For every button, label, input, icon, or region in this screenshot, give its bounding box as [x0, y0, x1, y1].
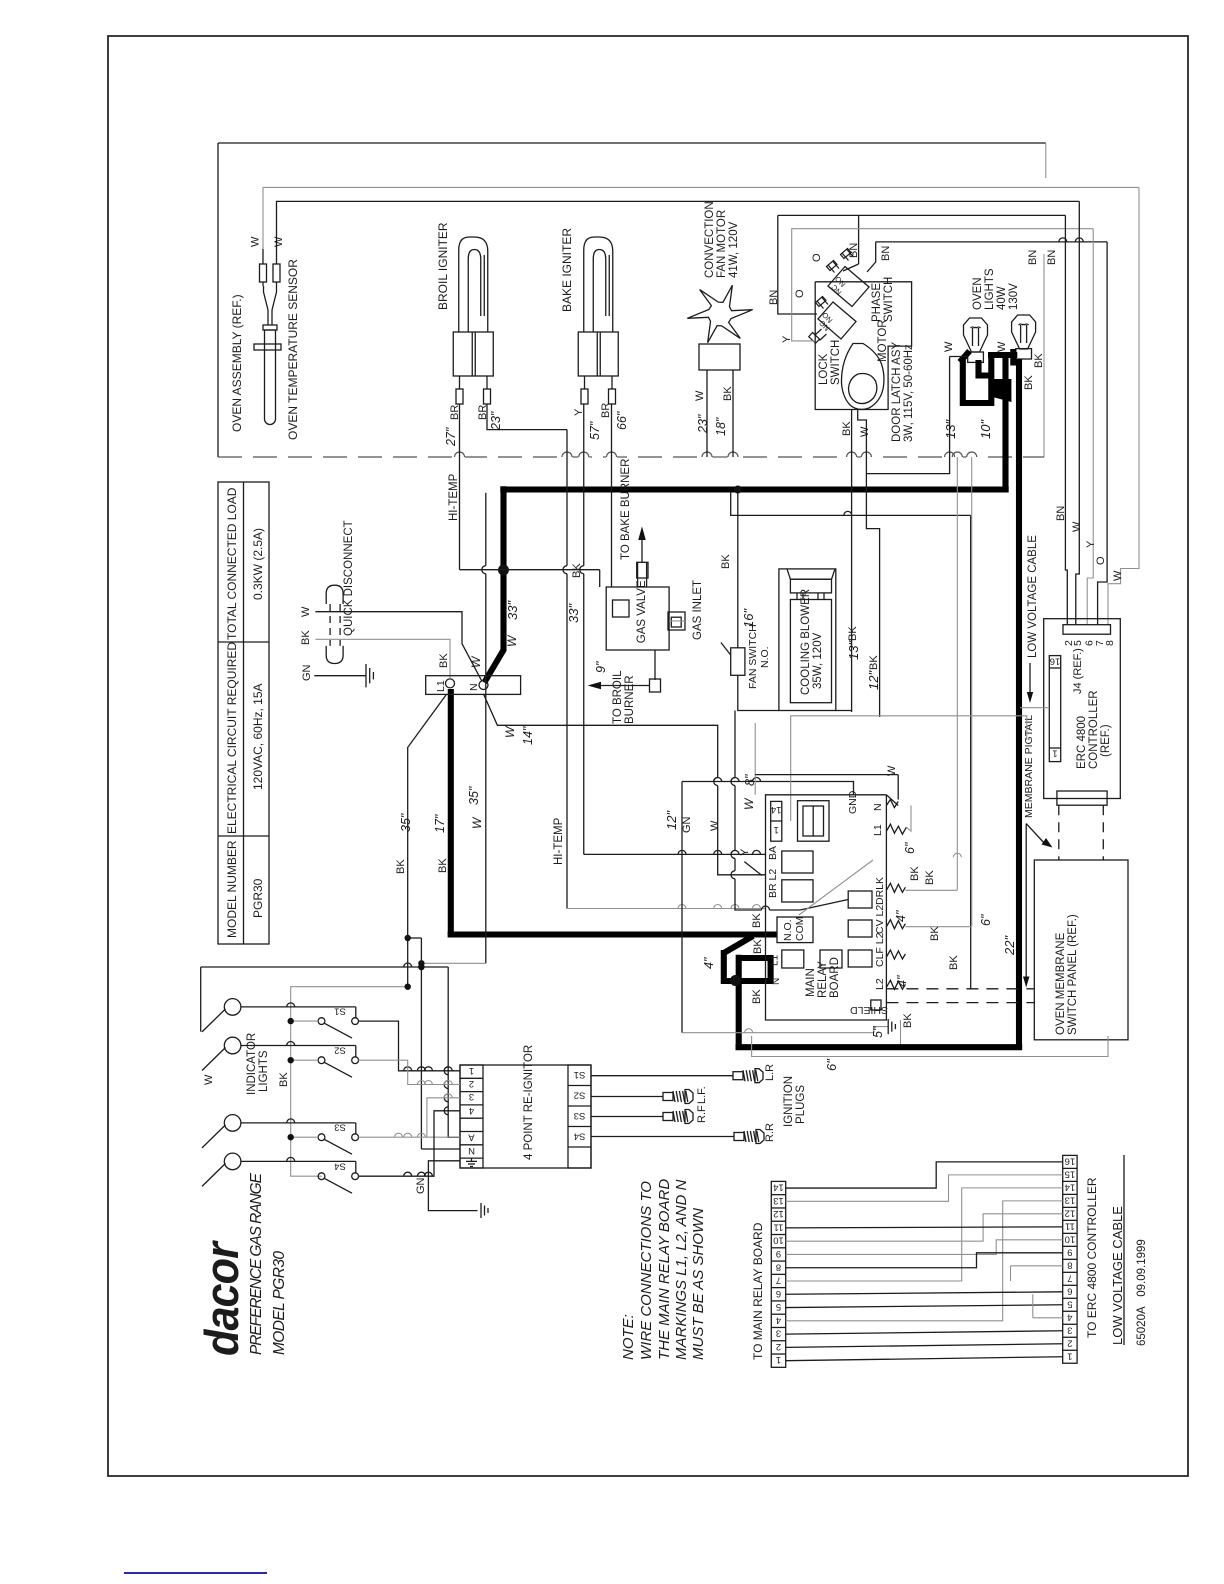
bold wire: drop from loop to bottom corner x=738.7: [736, 955, 742, 1047]
ground symbol re-ignitor: [480, 1203, 482, 1218]
svg-text:NOTE:: NOTE:: [620, 1314, 637, 1360]
svg-text:23": 23": [489, 411, 503, 431]
bold wire: lights tangle at oven lights: [960, 349, 1018, 403]
svg-text:BN: BN: [880, 246, 892, 261]
svg-text:O: O: [811, 253, 823, 262]
svg-text:BOARD: BOARD: [829, 957, 841, 998]
wire hop x448.2: [444, 1107, 448, 1115]
svg-text:BA: BA: [767, 846, 779, 860]
wire: DRLK to vertical x957.3: [905, 889, 957, 891]
ladder wire pin9 to ERC pin10: [786, 1240, 1063, 1255]
svg-text:10": 10": [978, 419, 993, 439]
fan switch lead bottom: [738, 675, 779, 710]
membrane pigtail dashed wires to panel: [886, 988, 1034, 990]
svg-text:5: 5: [1067, 1298, 1072, 1309]
svg-text:O: O: [794, 289, 806, 298]
gas valve inner detail: [613, 600, 630, 617]
svg-text:5": 5": [871, 1026, 885, 1038]
wire: bake lead Y drop x=583.75 to relay: [583, 404, 585, 566]
wire: bake lead BR drop x=611.5 into gas valve: [611, 404, 613, 587]
svg-text:9": 9": [594, 661, 608, 673]
svg-text:13: 13: [773, 1195, 784, 1206]
re-ignitor ground terminal glyph: [466, 1160, 477, 1162]
svg-text:ELECTRICAL CIRCUIT REQUIRED: ELECTRICAL CIRCUIT REQUIRED: [225, 642, 239, 834]
bold junction dot at (503.5,570): [498, 565, 509, 576]
junction dot BK bus S3: [288, 1134, 294, 1140]
svg-text:11: 11: [1065, 1220, 1075, 1231]
svg-text:WIRE CONNECTIONS TO: WIRE CONNECTIONS TO: [638, 1181, 655, 1360]
svg-text:BURNER: BURNER: [624, 675, 636, 724]
junction dot fan switch feed: [734, 486, 742, 494]
svg-text:12: 12: [773, 1208, 784, 1219]
svg-text:O: O: [1095, 556, 1107, 565]
svg-text:BROIL IGNITER: BROIL IGNITER: [436, 222, 450, 310]
svg-text:15: 15: [1065, 1168, 1076, 1179]
svg-text:MOTOR: MOTOR: [877, 319, 889, 362]
switch S2 contacts: [318, 1057, 325, 1064]
cooling blower inner box: [790, 600, 831, 703]
zigzag relay N terminal: [886, 800, 898, 808]
zigzag L2 bottom: [886, 980, 905, 989]
bus vertical v3 (Y) x=1093.2: [1087, 229, 1093, 625]
svg-text:BK: BK: [395, 859, 407, 874]
wire: GN wire from relay to shield ground: [682, 782, 854, 795]
svg-text:FAN MOTOR: FAN MOTOR: [716, 210, 728, 278]
svg-text:OVEN: OVEN: [972, 277, 984, 310]
svg-text:BN: BN: [1055, 506, 1067, 521]
svg-text:S2: S2: [334, 1044, 346, 1055]
svg-text:10: 10: [773, 1235, 784, 1246]
svg-text:W: W: [742, 797, 756, 810]
svg-text:23": 23": [696, 414, 710, 434]
wire: diagonal to DRLK terminal box: [800, 900, 848, 911]
wire into ERC pin strip: [1020, 707, 1049, 709]
wire: light L1 to switch S1: [241, 1006, 356, 1008]
svg-text:BK: BK: [1033, 353, 1045, 368]
wire: vertical x971.7 from above: [971, 457, 973, 927]
svg-text:9: 9: [776, 1248, 781, 1259]
svg-text:13": 13": [943, 419, 958, 439]
svg-text:TO BROIL: TO BROIL: [612, 670, 624, 724]
svg-text:BK: BK: [902, 1013, 914, 1028]
svg-text:BK: BK: [720, 554, 732, 569]
svg-text:22": 22": [1002, 935, 1017, 956]
re-ignitor left terminal column: [460, 1065, 483, 1168]
svg-text:GND: GND: [847, 790, 859, 814]
membrane pigtail dashed cable ERC to panel: [1058, 805, 1060, 860]
re-ignitor right terminal column S1-S4: [568, 1065, 591, 1168]
svg-text:BAKE IGNITER: BAKE IGNITER: [560, 228, 574, 312]
svg-text:PGR30: PGR30: [251, 878, 265, 918]
wire: cell 3 feeder from S3 row: [427, 1098, 460, 1137]
svg-text:PHASE: PHASE: [871, 283, 883, 322]
wire: right drop x970.7 to membrane pigtail area: [970, 515, 972, 988]
wire: N terminal riser to y774.6: [897, 775, 899, 800]
svg-text:R.F: R.F: [696, 1105, 708, 1123]
svg-text:GAS INLET: GAS INLET: [692, 580, 704, 640]
svg-text:CONTROLLER: CONTROLLER: [1088, 690, 1100, 769]
ladder wire pin10 to ERC pin12: [786, 1214, 1063, 1241]
arrow leader LOW VOLTAGE CABLE: [1029, 663, 1031, 696]
ladder wire pin11 to ERC pin11: [786, 1227, 1063, 1228]
svg-text:N: N: [468, 1145, 475, 1156]
svg-text:2: 2: [1067, 1337, 1072, 1348]
svg-text:W: W: [886, 765, 898, 776]
wire: relay bottom BK stub to bold: [900, 1020, 902, 1044]
switch S3 contacts: [318, 1134, 325, 1141]
svg-text:SWITCH PANEL (REF.): SWITCH PANEL (REF.): [1067, 914, 1079, 1035]
svg-text:HI-TEMP: HI-TEMP: [553, 817, 565, 865]
wire: latch BK lead down x=851.6: [851, 410, 853, 713]
wire: CV L2 to vertical x971.7: [905, 926, 971, 928]
svg-text:3: 3: [1067, 1324, 1072, 1335]
junction dot (407.7,938): [405, 935, 411, 941]
switch S1 blade: [324, 1023, 352, 1038]
svg-text:N.O.: N.O.: [759, 646, 771, 668]
low voltage cable right connector pins 1-16 to ERC 4800: [1063, 1155, 1077, 1363]
oven light bulb 1: [964, 318, 988, 352]
svg-text:Y: Y: [781, 335, 793, 343]
svg-text:(REF.): (REF.): [1100, 724, 1112, 757]
svg-text:DOOR LATCH ASY: DOOR LATCH ASY: [891, 342, 903, 442]
svg-text:W: W: [203, 1074, 215, 1085]
svg-text:6: 6: [776, 1288, 781, 1299]
svg-text:BN: BN: [1046, 250, 1058, 265]
svg-text:INDICATOR: INDICATOR: [246, 1033, 258, 1095]
svg-text:4": 4": [702, 957, 716, 969]
svg-text:S4: S4: [334, 1160, 346, 1171]
wire hop x448.2: [444, 1094, 448, 1102]
junction dot (421.4,967) dup: [418, 964, 424, 970]
relay shield terminal box: [871, 1000, 881, 1010]
svg-text:S4: S4: [574, 1131, 586, 1142]
wire: x421.4 drop to re-ignitor N cell: [408, 937, 422, 939]
wire hop h5 over v2: [1075, 238, 1083, 242]
bold wire: second BK drop from lights: [1016, 359, 1022, 1047]
ladder wire pin14 to ERC pin16: [786, 1162, 1063, 1188]
svg-text:OVEN MEMBRANE: OVEN MEMBRANE: [1055, 932, 1067, 1035]
wire: N wire vertical x=485.8: [485, 493, 487, 566]
switch S4 contacts: [318, 1173, 325, 1180]
svg-text:10: 10: [1065, 1233, 1076, 1244]
switch S1 contacts: [318, 1018, 325, 1025]
svg-text:SWITCH: SWITCH: [830, 340, 842, 385]
ladder wire pin5 to ERC pin5: [786, 1305, 1063, 1308]
wire: BK bus y=986.7: [291, 987, 408, 1176]
svg-text:PREFERENCE GAS RANGE: PREFERENCE GAS RANGE: [248, 1172, 265, 1355]
ladder wire pin4 to ERC pin13: [786, 1201, 1063, 1321]
svg-text:COOLING BLOWER: COOLING BLOWER: [800, 589, 812, 695]
svg-text:16: 16: [1065, 1155, 1076, 1166]
zigzag relay L1 terminal: [886, 824, 906, 834]
svg-text:9: 9: [1067, 1246, 1072, 1257]
svg-text:S1: S1: [574, 1069, 586, 1080]
svg-text:LOCK: LOCK: [818, 353, 830, 385]
ladder wire pin1 to ERC pin1: [786, 1357, 1063, 1361]
wire: phase terminal 1 riser x=858.6: [858, 215, 860, 264]
svg-text:L1: L1: [435, 680, 447, 692]
switch S4 blade: [324, 1178, 352, 1193]
svg-text:L1: L1: [770, 954, 781, 966]
svg-text:LIGHTS: LIGHTS: [984, 268, 996, 310]
wire: BK bus to S1: [291, 1020, 318, 1022]
svg-text:W: W: [996, 341, 1008, 352]
svg-text:4 POINT RE-IGNITOR: 4 POINT RE-IGNITOR: [523, 1045, 535, 1160]
cooling blower outer box: [779, 569, 836, 711]
svg-text:BN: BN: [848, 243, 860, 258]
wire h5: phase BN bus 2 y=241.9: [876, 241, 1107, 243]
svg-text:17": 17": [433, 814, 447, 833]
wire: cell A feeder drop x=448.2: [448, 967, 460, 1137]
svg-text:41W, 120V: 41W, 120V: [728, 221, 740, 278]
svg-text:14": 14": [521, 726, 535, 745]
pin 16 cell: [1049, 667, 1060, 669]
svg-text:dacor: dacor: [195, 1240, 248, 1356]
svg-text:3: 3: [776, 1328, 781, 1339]
svg-text:4": 4": [894, 910, 908, 922]
svg-text:L.F.: L.F.: [696, 1086, 708, 1104]
svg-text:PLUGS: PLUGS: [795, 1085, 807, 1124]
gas valve pipe to bake burner: [637, 562, 639, 587]
svg-text:THE MAIN RELAY BOARD: THE MAIN RELAY BOARD: [656, 1179, 673, 1360]
ladder wire pin8 to ERC pin9: [786, 1253, 1063, 1268]
wire: S1 output to re-ignitor cell 1: [359, 1021, 461, 1071]
svg-text:5: 5: [1072, 640, 1084, 646]
J4 connector strip: [1063, 625, 1111, 635]
svg-text:35": 35": [467, 786, 481, 805]
oven light bulb 2 base: [1016, 349, 1032, 359]
wire: S4 to plug RR: [591, 1136, 734, 1138]
wire sensor lead 2 to bus h2: [277, 201, 1080, 249]
svg-text:1: 1: [774, 824, 779, 835]
oven assembly enclosure box (dashed bottom edge): [218, 142, 1046, 144]
svg-text:27": 27": [444, 427, 458, 447]
svg-text:18": 18": [714, 417, 728, 436]
svg-text:TO ERC 4800 CONTROLLER: TO ERC 4800 CONTROLLER: [1085, 1177, 1099, 1338]
wire: BK bus to S3: [291, 1136, 318, 1138]
svg-text:BK: BK: [437, 858, 449, 873]
bold wire: L1 drop x=450.8: [448, 689, 454, 935]
switch S3 blade: [324, 1139, 352, 1154]
wire: shield to ground: [682, 1032, 874, 1034]
pin 1 cell: [1049, 747, 1060, 749]
svg-text:N: N: [771, 978, 782, 985]
svg-text:66": 66": [615, 411, 629, 430]
wire hop x407.7 over y967: [404, 963, 412, 967]
svg-text:W: W: [273, 236, 285, 247]
svg-text:BK: BK: [752, 939, 764, 954]
svg-text:FAN SWITCH: FAN SWITCH: [747, 624, 759, 689]
bus vertical v4 (O) x=1107.1: [1098, 242, 1108, 625]
svg-text:OVEN ASSEMBLY (REF.): OVEN ASSEMBLY (REF.): [230, 294, 244, 432]
ladder wire pin7 to ERC pin14: [786, 1188, 1063, 1281]
wire: S4 output to re-ignitor cell 4: [359, 1111, 461, 1176]
bold wire: BK drop from lights to corner (22 inch run): [1002, 380, 1008, 490]
svg-text:QUICK DISCONNECT: QUICK DISCONNECT: [343, 520, 355, 636]
svg-text:7: 7: [776, 1275, 781, 1286]
bake igniter: [584, 237, 613, 332]
svg-text:Y: Y: [1085, 540, 1097, 548]
wire: S3 output to re-ignitor cell A: [359, 1136, 461, 1138]
svg-text:S3: S3: [574, 1110, 586, 1121]
relay DRLK terminal box: [848, 891, 872, 908]
svg-text:33": 33": [566, 603, 581, 623]
svg-text:J4 (REF.): J4 (REF.): [1072, 648, 1084, 694]
svg-text:W: W: [250, 236, 262, 247]
junction dot (421.4,967): [418, 964, 424, 970]
indicator light L3: [224, 1115, 241, 1132]
fan motor leads: [706, 370, 708, 457]
wire: oven lights thin W wire: [950, 356, 968, 358]
broil burner pipe: [654, 650, 656, 680]
relay board 14/1 connector: [771, 801, 782, 841]
svg-text:4: 4: [776, 1314, 781, 1325]
svg-text:S2: S2: [574, 1090, 586, 1101]
svg-text:6": 6": [903, 842, 917, 854]
relay lower small boxes: [820, 950, 842, 968]
svg-text:MUST BE AS SHOWN: MUST BE AS SHOWN: [690, 1208, 707, 1360]
sensor lead connectors: [260, 264, 267, 282]
wire: S1 to plug LR: [591, 1075, 733, 1077]
dimension bracket 22 inch run: [752, 1036, 1108, 1057]
title block table: [218, 482, 269, 944]
svg-text:13: 13: [1065, 1194, 1076, 1205]
bold junction blob at oven lights: [989, 379, 1012, 402]
svg-text:W: W: [859, 426, 871, 437]
lock switch body: [818, 302, 856, 339]
bold wire: horizontal W bus y=489.5: [500, 486, 1008, 492]
bus vertical v5 (W) x=1139 from sensor bus h1: [1108, 187, 1139, 624]
svg-text:BR: BR: [600, 403, 612, 418]
wire: quick disconnect W wire: [315, 612, 482, 682]
wire: W feeder into relay top y=774.6: [754, 723, 756, 795]
wire: quick disconnect GN wire: [314, 675, 366, 677]
svg-text:12": 12": [664, 810, 679, 830]
svg-text:BN: BN: [768, 290, 780, 305]
svg-text:SHIELD: SHIELD: [850, 1004, 888, 1016]
svg-text:W: W: [1112, 570, 1124, 581]
oven light bulb 1 base: [968, 352, 984, 362]
wire hop h5 over v1: [1059, 238, 1067, 242]
wire: light L4 to switch S4: [241, 1160, 356, 1162]
svg-text:S1: S1: [334, 1005, 346, 1016]
wire hop x448.2: [444, 1067, 448, 1075]
svg-text:1: 1: [1067, 1350, 1072, 1361]
oven temperature sensor RT1: [265, 330, 276, 425]
svg-text:MODEL NUMBER: MODEL NUMBER: [225, 840, 239, 938]
relay board corner jog to N terminal: [886, 795, 898, 806]
svg-text:N: N: [468, 683, 480, 691]
svg-text:12: 12: [1065, 1207, 1076, 1218]
svg-text:0.3KW (2.5A): 0.3KW (2.5A): [251, 528, 265, 600]
relay terminal box BR L2: [782, 880, 813, 902]
svg-text:BK: BK: [948, 955, 960, 970]
svg-text:3: 3: [469, 1091, 474, 1102]
svg-text:IGNITION: IGNITION: [783, 1076, 795, 1127]
zigzag CLF L2: [886, 950, 905, 959]
svg-text:MODEL PGR30: MODEL PGR30: [271, 1251, 288, 1355]
svg-text:14: 14: [773, 1182, 784, 1193]
svg-text:BK: BK: [722, 386, 734, 401]
power connector block L1 N: [426, 676, 521, 695]
svg-text:W: W: [503, 725, 517, 738]
svg-text:GN: GN: [415, 1177, 427, 1194]
door latch assembly enclosure: [815, 282, 911, 410]
wire: broil lead B elbow to x567 down to relay feeder: [487, 404, 567, 430]
wire: W bus top y=967: [201, 966, 449, 968]
wire: W bus left vertical x=200.7: [200, 967, 202, 1032]
wire: S3 to plug RF: [591, 1116, 663, 1118]
ladder wire pin13 to ERC pin15: [786, 1175, 1063, 1201]
wire: h3 left drop to lock switch O terminal: [778, 215, 817, 314]
oven light bulb 2: [1012, 315, 1036, 349]
svg-text:BK: BK: [751, 913, 763, 928]
bold wire: relay loop: [724, 950, 771, 981]
membrane pigtail leader arrow down: [1025, 824, 1027, 980]
wire: Y diagonal into relay: [744, 862, 762, 876]
svg-text:N: N: [872, 803, 884, 811]
shield ground symbol: [887, 1019, 889, 1034]
junction dot BK bus S2: [288, 1057, 294, 1063]
wire: L1 diagonal BK 35 inch: [408, 695, 446, 987]
svg-text:4: 4: [469, 1105, 474, 1116]
wire: quick disconnect BK wire: [315, 639, 450, 678]
wire: W blower return down to relay DRLK: [734, 711, 736, 778]
ladder wire tee to ERC pin8: [1011, 1265, 1063, 1267]
svg-text:BN: BN: [1027, 250, 1039, 265]
svg-text:8: 8: [1067, 1259, 1072, 1270]
svg-text:7: 7: [1067, 1272, 1072, 1283]
wire: vertical x957.3 from above: [956, 457, 958, 890]
bus vertical v2 (W) x=1079.3: [1076, 201, 1080, 624]
ladder wire tee to ERC pin4: [1033, 1317, 1063, 1319]
wire: broil lead A HI-TEMP drop x=459.5: [459, 404, 461, 570]
wire: light L3 to switch S3: [241, 1122, 356, 1124]
fan switch body: [731, 648, 745, 676]
bold wire: diagonal into N terminal: [484, 650, 503, 683]
cooling blower cap: [787, 569, 835, 579]
svg-text:BK: BK: [924, 870, 936, 885]
wire: L1 terminal to 6 inch loop: [906, 806, 911, 832]
svg-text:CONVECTION: CONVECTION: [704, 201, 716, 278]
ignition plug symbol: [734, 1133, 744, 1141]
svg-text:1: 1: [1052, 748, 1057, 759]
svg-text:OVEN TEMPERATURE SENSOR: OVEN TEMPERATURE SENSOR: [286, 259, 300, 440]
svg-text:11: 11: [774, 1221, 784, 1232]
wire: light L1 diagonal to W bus: [202, 1009, 226, 1032]
svg-text:ERC 4800: ERC 4800: [1076, 716, 1088, 769]
relay transformer component: [798, 801, 830, 842]
arrow to broil burner: [588, 682, 602, 690]
svg-text:6: 6: [1067, 1285, 1072, 1296]
wire: N to fan-switch feeder W 14 inch: [484, 694, 718, 778]
svg-text:SWITCH: SWITCH: [883, 277, 895, 322]
wire h4: Y wire y=228.7 to lock switch: [792, 229, 1093, 341]
svg-text:8": 8": [743, 774, 757, 786]
relay board leader diagonal: [799, 860, 873, 915]
svg-text:BK: BK: [571, 563, 583, 578]
phase switch body: [828, 267, 869, 307]
broil igniter: [459, 237, 488, 332]
indicator light L4: [224, 1153, 241, 1170]
svg-text:MARKINGS L1, L2, AND N: MARKINGS L1, L2, AND N: [673, 1180, 690, 1360]
terminal N: [479, 681, 488, 690]
lock switch terminals: [809, 297, 828, 344]
fan switch lead top: [737, 491, 739, 648]
svg-text:W: W: [470, 816, 484, 829]
svg-text:MEMBRANE PIGTAIL: MEMBRANE PIGTAIL: [1023, 715, 1035, 818]
indicator light L2: [224, 1037, 241, 1054]
